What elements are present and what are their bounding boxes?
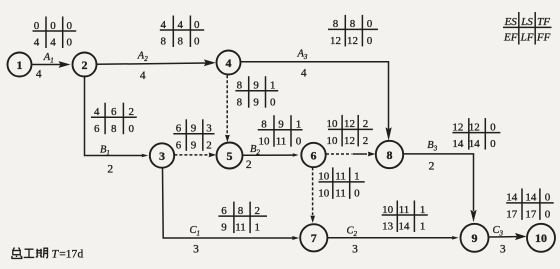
label C1 duration 3 [190, 225, 201, 256]
legend ES LS TF / EF LF FF [503, 12, 552, 45]
svg-text:9: 9 [253, 80, 259, 92]
svg-text:10: 10 [327, 135, 339, 147]
svg-text:6: 6 [94, 123, 100, 135]
svg-text:8: 8 [237, 96, 243, 108]
svg-text:0: 0 [367, 18, 373, 30]
svg-text:6: 6 [221, 205, 227, 217]
svg-text:1: 1 [17, 58, 23, 72]
time table A3 (node4-8) [328, 15, 378, 47]
wire activity C1 arrow 3-7 (elbow) [163, 168, 300, 240]
svg-text:4: 4 [226, 56, 232, 70]
svg-text:3: 3 [159, 149, 165, 163]
node 9 [461, 224, 489, 252]
label A1 duration 4 [36, 52, 54, 81]
svg-text:1: 1 [354, 171, 360, 183]
svg-text:8: 8 [261, 119, 267, 131]
node 6 [301, 143, 325, 167]
label C2 duration 3 [347, 225, 359, 255]
svg-text:EF: EF [503, 31, 518, 43]
node 4 [217, 51, 241, 75]
svg-text:3: 3 [206, 123, 212, 135]
svg-text:B3: B3 [427, 140, 437, 153]
time table C2 (node7-9) [382, 201, 428, 233]
svg-text:0: 0 [367, 35, 373, 47]
svg-text:2: 2 [82, 58, 88, 72]
label C3 duration 3 [493, 225, 506, 256]
svg-text:6: 6 [176, 139, 182, 151]
svg-text:T: T [52, 247, 60, 261]
time table dummy 3-5 [173, 119, 214, 151]
svg-text:4: 4 [50, 37, 56, 49]
svg-text:=17: =17 [59, 248, 77, 260]
svg-text:9: 9 [191, 139, 197, 151]
svg-text:10: 10 [535, 231, 547, 245]
svg-text:14: 14 [452, 138, 464, 150]
svg-text:0: 0 [34, 20, 40, 32]
svg-text:17: 17 [525, 209, 537, 221]
svg-text:9: 9 [278, 119, 284, 131]
wire activity A3 arrow 4-8 (elbow) [241, 62, 392, 141]
svg-text:13: 13 [382, 221, 394, 233]
time table C3 (node9-10) [506, 188, 554, 220]
svg-text:8: 8 [350, 18, 356, 30]
svg-text:C2: C2 [347, 225, 358, 238]
svg-text:LS: LS [520, 16, 533, 28]
svg-text:10: 10 [327, 118, 339, 130]
svg-text:2: 2 [363, 135, 369, 147]
svg-text:11: 11 [276, 135, 287, 147]
svg-text:ES: ES [504, 16, 518, 28]
svg-text:FF: FF [536, 31, 551, 43]
svg-text:0: 0 [296, 135, 302, 147]
dummy arrow 6-8 dashed [326, 152, 375, 157]
svg-text:2: 2 [107, 163, 113, 175]
time table dummy 4-5 [235, 76, 278, 108]
wire activity B1 arrow 2-3 (elbow) [85, 77, 149, 157]
svg-text:3: 3 [193, 244, 199, 256]
svg-text:12: 12 [452, 121, 463, 133]
svg-text:12: 12 [344, 135, 355, 147]
svg-text:9: 9 [221, 222, 227, 234]
svg-text:4: 4 [34, 37, 40, 49]
svg-text:12: 12 [469, 121, 480, 133]
time table B2 (node5-6) [258, 115, 303, 147]
time table dummy 6-7 [318, 167, 365, 199]
svg-text:2: 2 [206, 139, 212, 151]
svg-text:0: 0 [129, 123, 135, 135]
time table C1 (node3-7) [218, 202, 267, 234]
title 总工期 T=17d [12, 248, 48, 259]
svg-text:A1: A1 [43, 52, 54, 65]
svg-text:4: 4 [94, 106, 100, 118]
svg-text:9: 9 [253, 96, 259, 108]
svg-text:7: 7 [311, 231, 317, 245]
svg-text:10: 10 [318, 171, 330, 183]
svg-text:14: 14 [469, 138, 481, 150]
svg-text:1: 1 [420, 204, 426, 216]
svg-text:4: 4 [178, 19, 184, 31]
node 3 [150, 143, 174, 167]
time table A1 (node1-2) [33, 17, 77, 49]
label B2 duration 2 [246, 144, 260, 171]
svg-text:6: 6 [111, 106, 117, 118]
time table B1 (node2-3) [91, 103, 137, 135]
svg-text:8: 8 [237, 80, 243, 92]
svg-text:0: 0 [545, 209, 551, 221]
svg-text:14: 14 [399, 221, 411, 233]
svg-text:0: 0 [50, 20, 56, 32]
svg-text:4: 4 [160, 19, 166, 31]
svg-text:3: 3 [352, 244, 358, 256]
node 8 [376, 141, 403, 168]
svg-text:11: 11 [399, 204, 410, 216]
svg-text:2: 2 [429, 161, 435, 173]
svg-text:B1: B1 [100, 144, 110, 157]
svg-text:2: 2 [129, 106, 135, 118]
svg-text:9: 9 [191, 123, 197, 135]
wire activity C3 arrow 9-10 [489, 233, 527, 240]
node 5 [217, 143, 243, 169]
svg-text:17: 17 [506, 209, 518, 221]
label B1 duration 2 [100, 144, 113, 175]
svg-text:LF: LF [520, 31, 534, 43]
svg-text:14: 14 [525, 192, 537, 204]
svg-text:C3: C3 [493, 225, 504, 238]
wire activity A1 arrow 1-2 [32, 61, 71, 68]
svg-text:4: 4 [301, 68, 307, 80]
svg-text:8: 8 [238, 205, 244, 217]
svg-text:0: 0 [194, 36, 200, 48]
svg-text:A2: A2 [137, 51, 148, 64]
svg-text:1: 1 [270, 80, 276, 92]
svg-text:11: 11 [335, 171, 346, 183]
svg-text:0: 0 [490, 121, 496, 133]
dummy arrow 6-7 dashed [310, 167, 315, 223]
wire activity C2 arrow 7-9 [328, 236, 459, 240]
node 1 [8, 53, 32, 77]
svg-text:0: 0 [270, 96, 276, 108]
svg-text:14: 14 [506, 192, 518, 204]
svg-text:11: 11 [335, 188, 346, 200]
svg-text:12: 12 [330, 35, 341, 47]
wire activity A2 arrow 2-4 [97, 59, 216, 66]
svg-text:10: 10 [318, 188, 330, 200]
time table A2 (node2-4) [160, 16, 204, 48]
svg-text:2: 2 [254, 205, 260, 217]
svg-text:8: 8 [111, 123, 117, 135]
svg-text:11: 11 [235, 222, 246, 234]
node 2 [73, 53, 97, 77]
svg-text:6: 6 [311, 148, 317, 162]
svg-text:8: 8 [333, 18, 339, 30]
time table B3 (node8-9) [452, 118, 500, 150]
svg-text:12: 12 [347, 35, 358, 47]
svg-text:0: 0 [67, 20, 73, 32]
label A3 duration 4 [297, 48, 308, 79]
svg-text:1: 1 [254, 222, 260, 234]
svg-text:4: 4 [36, 69, 42, 81]
svg-text:12: 12 [344, 118, 355, 130]
node 10 [527, 224, 555, 252]
wire activity B2 arrow 5-6 [243, 153, 299, 156]
svg-text:0: 0 [545, 192, 551, 204]
svg-text:3: 3 [500, 244, 506, 256]
node 7 [300, 224, 327, 251]
time table dummy 6-8 [327, 115, 373, 147]
svg-text:0: 0 [490, 138, 496, 150]
svg-text:d: d [78, 248, 84, 260]
svg-text:9: 9 [472, 231, 478, 245]
svg-text:6: 6 [176, 123, 182, 135]
svg-text:8: 8 [160, 36, 166, 48]
svg-text:10: 10 [259, 135, 271, 147]
svg-text:8: 8 [387, 148, 393, 162]
svg-text:10: 10 [382, 204, 394, 216]
svg-text:5: 5 [227, 149, 233, 163]
svg-text:TF: TF [537, 16, 550, 28]
svg-text:0: 0 [67, 37, 73, 49]
dummy arrow 3-5 dashed [174, 153, 216, 158]
svg-text:A3: A3 [297, 48, 308, 61]
label A2 duration 4 [137, 51, 148, 83]
svg-text:4: 4 [140, 70, 146, 82]
svg-text:0: 0 [194, 19, 200, 31]
svg-text:0: 0 [354, 188, 360, 200]
dummy arrow 4-5 dashed [225, 75, 230, 142]
svg-text:8: 8 [178, 36, 184, 48]
svg-text:2: 2 [246, 159, 252, 171]
wire activity B3 arrow 8-9 (elbow) [403, 154, 476, 222]
svg-text:C1: C1 [190, 225, 201, 238]
svg-text:1: 1 [420, 221, 426, 233]
svg-text:1: 1 [296, 119, 302, 131]
svg-text:2: 2 [363, 118, 369, 130]
label B3 duration 2 [427, 140, 437, 173]
